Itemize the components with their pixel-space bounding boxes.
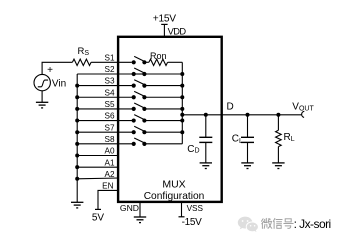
wire S7 out [144,131,182,133]
wire S2 row [77,73,134,75]
left ground bus [76,74,78,202]
wire A2 row [77,177,119,180]
svg-text:S1: S1 [104,53,114,62]
svg-text:CL: CL [232,133,243,145]
node D wire to output [182,114,302,116]
terminal tick VDD [161,23,167,25]
wire Vin top to Rs [42,62,72,74]
junction dots on left bus [75,84,79,181]
switch S8 [132,138,147,146]
svg-text:Vin: Vin [52,79,66,90]
label MUX Configuration [144,179,205,202]
pin labels [102,53,115,190]
svg-text:S8: S8 [104,135,114,144]
terminal VOUT [302,111,305,117]
wire S3 row [77,85,134,87]
svg-text:RS: RS [78,46,90,57]
switch S5 [132,103,147,111]
resistor Ron [149,59,168,65]
switch S6 [132,115,147,123]
watermark wechat icon [238,217,258,232]
svg-text:S6: S6 [104,112,114,121]
wire VDD [163,24,165,36]
svg-text:Configuration: Configuration [144,191,205,202]
svg-text:GND: GND [120,203,139,213]
switch S3 [132,80,147,88]
ground (CL) [241,163,253,169]
svg-text:A2: A2 [104,170,114,179]
svg-text:S3: S3 [104,77,114,86]
wire S5 out [144,108,182,110]
wire GND pin [139,203,141,217]
capacitor CD [199,115,212,163]
wire Vin bottom to ground [41,91,43,103]
watermark text 号 [284,219,293,229]
internal output bus [181,62,183,144]
wire S7 row [77,131,134,133]
svg-text:A1: A1 [104,158,114,167]
terminal tick 5V [95,208,101,210]
svg-text:D: D [227,102,234,113]
svg-text:: Jx-sori: : Jx-sori [294,217,331,231]
wire Ron to bus [168,61,183,63]
switch S7 [132,126,147,134]
svg-text:+15V: +15V [153,14,177,25]
watermark text 信 [273,218,282,228]
capacitor CL [241,115,254,163]
svg-text:5V: 5V [92,212,105,223]
svg-text:S4: S4 [104,88,114,97]
wire S3 out [144,85,182,87]
wire S4 row [77,96,134,98]
source Vin [34,74,50,90]
svg-text:VSS: VSS [187,204,204,213]
watermark text 微 [262,218,272,228]
svg-text:+: + [47,65,53,76]
svg-text:S5: S5 [104,100,114,109]
resistor RS [72,59,91,65]
wire S4 out [144,96,182,98]
resistor RL [276,115,282,163]
MUX box U1 [118,37,222,202]
ground (CD) [200,163,212,169]
svg-text:Ron: Ron [150,51,167,61]
ground (RL) [272,163,284,169]
svg-text:VDD: VDD [168,27,187,37]
switch S1 [132,56,147,64]
svg-text:S7: S7 [104,123,114,132]
switch S2 [132,68,147,76]
junction dots on D wire [204,113,281,117]
wire Rs to S1 pin [91,61,132,63]
wire EN to 5V [98,190,119,209]
wire S2 out [144,73,182,75]
svg-text:MUX: MUX [162,179,185,191]
svg-text:S2: S2 [104,65,114,74]
wire A0 row [77,155,119,157]
junction dots on bus [180,72,184,134]
svg-text:A0: A0 [104,147,114,156]
wire S6 out [144,120,182,122]
svg-text:EN: EN [102,182,113,191]
svg-text:VOUT: VOUT [292,101,314,112]
svg-text:RL: RL [284,132,295,143]
wire S6 row [77,120,134,122]
pin VSS [181,203,183,217]
ground (left bus) [71,202,83,208]
wire S8 out [144,143,182,145]
wire A1 row [77,166,119,168]
ground (Vin) [36,102,48,108]
wire S8 row [77,143,134,145]
switch S4 [132,91,147,99]
svg-text:CD: CD [187,144,199,155]
wire S5 row [77,108,134,110]
wire S1 switch to Ron [144,61,149,63]
svg-text:-15V: -15V [182,217,203,228]
terminal tick VSS [179,216,185,218]
ground (GND pin) [134,217,146,223]
